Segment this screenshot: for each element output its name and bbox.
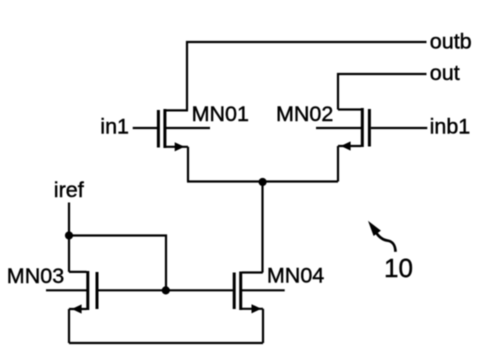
svg-text:in1: in1 [100, 115, 129, 139]
wire diode connection iref node to gate node [69, 236, 166, 291]
wire tail rail [187, 180, 338, 182]
wire MN03 source down [68, 309, 70, 343]
svg-text:iref: iref [54, 178, 84, 202]
node gate junction dot [162, 286, 170, 294]
transistor MN01 [133, 109, 210, 151]
wire bottom source rail [69, 342, 263, 344]
reference arrow for label 10 [368, 221, 396, 252]
wire MN01 source to tail rail [187, 147, 189, 182]
wire tail node to MN04 drain [261, 182, 263, 273]
svg-text:inb1: inb1 [430, 114, 471, 138]
wire out net (MN02 drain to out) [338, 74, 427, 110]
svg-text:MN04: MN04 [267, 264, 324, 288]
svg-text:10: 10 [384, 253, 413, 283]
svg-text:MN03: MN03 [7, 264, 64, 288]
node tail junction dot [259, 178, 267, 186]
wire iref vertical [68, 203, 70, 272]
transistor MN03 [46, 271, 97, 314]
transistor MN04 [234, 272, 285, 314]
wire MN04 source down [262, 309, 264, 343]
wire outb net (MN01 drain to outb) [187, 42, 427, 110]
wire MN02 source to tail rail [337, 146, 339, 182]
wire current mirror gate wire MN03-MN04 [99, 289, 233, 291]
svg-text:outb: outb [430, 30, 472, 54]
svg-text:out: out [430, 61, 460, 85]
svg-text:MN01: MN01 [192, 102, 249, 126]
svg-text:MN02: MN02 [276, 102, 333, 126]
transistor MN02 [316, 108, 427, 151]
node iref junction dot [65, 231, 73, 239]
